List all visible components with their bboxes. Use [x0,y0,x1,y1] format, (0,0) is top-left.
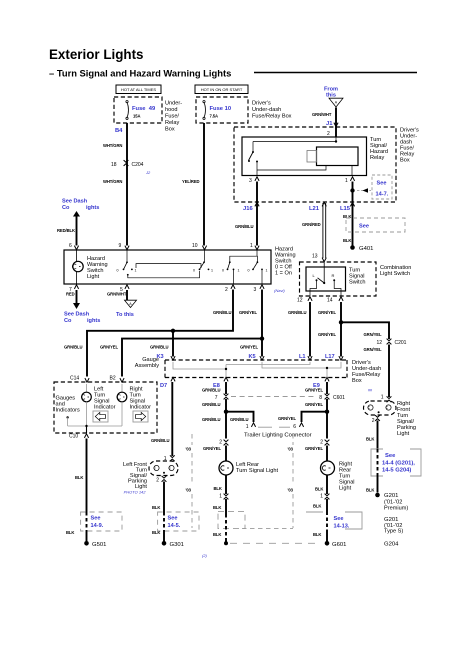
svg-text:Driver's: Driver's [252,101,271,107]
svg-text:15A: 15A [133,114,140,119]
svg-text:BLK: BLK [366,488,374,493]
left arrow icon [93,411,108,422]
hazard pin 5 [120,285,129,293]
svg-text:Light: Light [397,431,410,437]
connector J16 [243,202,259,212]
svg-text:'03: '03 [288,447,294,452]
left rear ground link box [213,499,245,545]
hot at all times header box [116,85,161,94]
wire relay pin3 to J16 to hazard pin 1 (GRN/BLU) [235,182,257,246]
svg-text:14-4 (G201),: 14-4 (G201), [382,461,415,467]
svg-text:BLK: BLK [213,505,221,510]
svg-text:12: 12 [377,340,383,346]
see 14-4/14-5 reference [371,449,421,476]
gauges and indicators box [54,382,157,433]
connector D7 [160,377,175,389]
svg-text:14-5 G204): 14-5 G204) [382,468,411,474]
svg-text:1: 1 [135,268,137,272]
svg-text:9: 9 [119,243,122,249]
svg-text:18: 18 [111,162,117,168]
svg-text:BLK: BLK [313,504,321,509]
connector C601 pin 8 [319,394,345,401]
svg-text:14: 14 [327,298,333,304]
svg-text:1: 1 [246,424,249,430]
svg-text:See Dash: See Dash [64,312,90,318]
(Navi) note [274,288,285,293]
wire pin 12 to L1 (GRN/BLU) [288,302,310,357]
svg-text:G401: G401 [359,246,373,252]
wire link A to relay pin 2 (GRN/WHT) [312,108,336,138]
turn signal/hazard relay [242,131,388,176]
svg-text:Indicators: Indicators [56,408,80,414]
svg-text:1: 1 [345,178,348,184]
svg-text:'03: '03 [186,488,192,493]
connector B2 [110,376,125,383]
svg-text:WHT/GRN: WHT/GRN [103,143,122,148]
svg-text:GRN/YEL: GRN/YEL [364,332,382,337]
relay pin 1 [345,177,355,184]
svg-text:K3: K3 [157,354,164,360]
svg-text:2: 2 [327,131,330,137]
svg-text:14-5.: 14-5. [168,523,181,529]
svg-text:J16: J16 [243,206,253,212]
wire L21 to turn switch pin 13 (GRN/RED hollow) [302,203,326,258]
svg-text:C10: C10 [69,434,78,440]
connector E9 [313,377,329,389]
svg-text:1: 1 [266,268,268,272]
svg-text:G204: G204 [384,542,399,548]
wire branch to trailer pin 1 [226,412,254,422]
right front turn signal/parking light [364,401,416,437]
left rear light pin 1 [213,494,228,511]
svg-text:R: R [332,273,335,278]
svg-text:3: 3 [254,287,257,293]
wire hazard pin 5 to link A (GRN/WHT) [107,290,137,318]
turn signal switch (combination light switch) [300,262,412,296]
svg-text:Light Switch: Light Switch [380,271,410,277]
svg-text:1 = On: 1 = On [275,271,292,277]
hazard warning switch light bulb [72,250,107,284]
footnote ## [368,389,373,393]
svg-text:1: 1 [320,494,323,500]
see 14-13 reference [306,499,362,537]
svg-text:Fuse 49: Fuse 49 [132,106,156,112]
svg-text:8: 8 [319,395,322,401]
see 14-7 reference [357,175,392,199]
svg-text:Box: Box [165,127,175,133]
svg-text:L17: L17 [325,354,335,360]
hazard pin 7 [69,285,79,293]
right rear light pin 2 [305,440,329,452]
connector 7 ('03 trailer) [215,394,315,401]
svg-text:1: 1 [219,494,222,500]
svg-text:Indicator: Indicator [130,405,152,411]
svg-text:C201: C201 [395,340,407,346]
svg-text:BLK: BLK [214,486,222,491]
wire dash lights to hazard pin 6 (RED/BLK) [57,216,77,246]
hazard warning switch [64,250,271,284]
wire left front light to G301 (BLK) [152,482,164,513]
svg-text:(2): (2) [202,553,208,558]
right front light pin 2 [372,415,380,424]
driver's under-dash fuse/relay box (dashed) [234,127,396,202]
svg-text:BLK: BLK [213,532,221,537]
svg-text:2: 2 [320,440,323,446]
left front turn signal/parking light [123,455,178,494]
svg-text:BLK: BLK [75,475,83,480]
svg-text:Box: Box [400,158,410,164]
svg-text:BLK: BLK [66,530,74,535]
svg-text:14-13.: 14-13. [334,524,350,530]
from this (link A) [324,87,343,108]
'03 alternate dashes right [242,434,294,529]
wire fuse49 to hazard pin 9 (WHT/GRN) [103,123,127,246]
svg-text:BLK: BLK [313,532,321,537]
see 14-5 reference [152,512,199,535]
ground G204 [384,542,399,548]
svg-text:14-9.: 14-9. [91,523,104,529]
svg-text:GRN/YEL: GRN/YEL [318,332,336,337]
turn switch pin 12 [297,297,312,304]
ground G201 type s [384,517,403,535]
svg-text:2: 2 [225,287,228,293]
relay pin 3 [249,177,259,184]
left turn signal indicator [81,384,115,411]
svg-text:GRN/YEL: GRN/YEL [203,446,221,451]
svg-text:C204: C204 [132,162,144,168]
svg-text:hood: hood [165,107,177,113]
svg-text:See: See [168,516,178,522]
svg-text:Under-dash: Under-dash [252,107,281,113]
see ground box [346,218,405,232]
svg-text:WHT/GRN: WHT/GRN [103,179,122,184]
svg-text:1: 1 [238,268,240,272]
indicator ground bus [66,402,122,433]
svg-text:12: 12 [297,298,303,304]
svg-text:G501: G501 [92,542,106,548]
left rear light pin 2 [203,440,228,452]
svg-text:See: See [385,453,396,459]
hazard switch contacts [117,250,268,284]
connector K5 [249,354,265,360]
svg-text:GRN/WHT: GRN/WHT [312,112,332,117]
svg-text:13: 13 [312,254,318,260]
see dash lights (top link) [62,199,99,217]
turn switch pin 13 [312,254,326,262]
hazard pin 3 [254,285,265,293]
svg-text:1: 1 [250,243,253,249]
wire E9 to C601 (GRN/YEL) [305,382,327,394]
connector E8 [213,377,228,389]
connector C10 [69,434,89,440]
left rear turn signal light [214,446,279,495]
svg-text:BLK: BLK [152,505,160,510]
svg-text:2: 2 [372,418,375,424]
svg-text:See: See [334,516,344,522]
connector L17 [325,354,343,360]
svg-text:6: 6 [69,243,72,249]
fuse 49 [126,101,156,120]
svg-text:GRN/BLU: GRN/BLU [213,310,231,315]
wire relay pin1 to G401 (BLK) [343,182,355,247]
svg-text:G601: G601 [332,542,346,548]
turn signal switch contacts [306,262,365,296]
wire to left rear junction [202,399,248,439]
svg-text:7.5A: 7.5A [210,114,219,119]
ground G301 [162,531,184,548]
trailer pin 1 [246,423,256,430]
svg-text:'03: '03 [186,447,192,452]
svg-text:GRN/BLU: GRN/BLU [202,388,220,393]
fuse 49 box (underhood fuse/relay box) [114,97,162,123]
hazard switch label [275,247,296,277]
svg-text:6: 6 [293,424,296,430]
connector L15 [340,202,355,212]
hazard pin 2 [225,285,235,293]
svg-text:this: this [326,93,336,99]
right rear light pin 1 [313,494,329,509]
svg-text:Indicator: Indicator [94,405,116,411]
underhood box label [165,101,182,133]
svg-text:GRN/BLU: GRN/BLU [288,310,306,315]
svg-text:GRN/BLU: GRN/BLU [150,345,168,350]
trailer pin 6 [278,416,304,430]
wire C601 to right rear junction [305,399,329,439]
svg-text:7: 7 [215,395,218,401]
svg-text:B4: B4 [115,128,123,134]
hazard pin 9 [119,243,130,250]
gauge assembly label [135,357,159,369]
svg-text:Type S): Type S) [384,529,403,535]
fuse 10 box (driver's under-dash fuse/relay box) [196,97,248,123]
under-dash box label right [400,128,419,164]
svg-text:Trailer Lighting Connector: Trailer Lighting Connector [244,433,312,439]
see 14-9 reference [66,512,122,535]
ground G201 [366,476,408,512]
svg-text:0: 0 [248,268,250,272]
svg-text:GRN/RED: GRN/RED [302,222,321,227]
svg-text:0: 0 [193,268,195,272]
svg-text:2: 2 [219,440,222,446]
svg-text:'03: '03 [288,488,294,493]
svg-text:G201: G201 [384,493,398,499]
svg-text:To this: To this [116,312,134,318]
hazard pin 6 [69,243,79,250]
footnote (2) [202,553,208,558]
gauge assembly / under-dash pass-through box [165,360,347,378]
svg-text:Fuse 10: Fuse 10 [210,106,232,112]
svg-text:See: See [377,181,387,187]
svg-text:K5: K5 [249,354,256,360]
svg-text:Assembly: Assembly [135,363,159,369]
svg-text:GRN/BLU: GRN/BLU [151,438,169,443]
wire C201 to right front light (GRN/YEL) [364,345,390,398]
svg-text:Relay: Relay [165,120,180,126]
svg-text:GRN/BLU: GRN/BLU [64,345,82,350]
connector C201 pin 12 [377,339,407,346]
connector C204 pin 18 [111,160,151,175]
trailer lighting connector [244,427,312,438]
svg-text:1: 1 [211,268,213,272]
svg-text:RED/BLK: RED/BLK [57,228,75,233]
svg-text:BLK: BLK [315,487,323,492]
svg-text:Exterior Lights: Exterior Lights [49,47,144,62]
svg-text:BLK: BLK [366,437,374,442]
svg-text:– Turn Signal and Hazard Warni: – Turn Signal and Hazard Warning Lights [49,68,231,79]
svg-text:Co: Co [62,205,70,211]
svg-text:See: See [359,224,369,230]
hot in on or start header box [195,85,248,94]
svg-text:GRN/YEL: GRN/YEL [305,446,323,451]
wire E8 to left rear light (GRN/BLU) [202,382,226,394]
wire hazard pin 7 to dash lights (RED) [64,290,100,324]
svg-text:L21: L21 [309,206,320,212]
svg-text:GRN/YEL: GRN/YEL [100,345,118,350]
connector L21 [309,202,326,212]
svg-text:GRN/YEL: GRN/YEL [239,310,257,315]
svg-text:0: 0 [222,268,224,272]
svg-text:B2: B2 [110,376,116,382]
svg-text:(Navi): (Navi) [274,288,285,293]
TITLE [49,47,417,79]
wire branch right rear to trailer pin 6 [302,412,328,422]
svg-text:GRN/YEL: GRN/YEL [240,345,258,350]
svg-text:RED: RED [66,292,75,297]
hazard pin 10 [192,243,207,250]
connector K3 [157,354,176,360]
svg-text:Box: Box [352,378,362,384]
svg-text:GRN/BLU: GRN/BLU [235,224,253,229]
svg-text:PHOTO 142: PHOTO 142 [124,490,147,495]
wire hazard pin 3 to B2/K5 (GRN/YEL) [100,290,264,377]
svg-text:Co: Co [64,318,72,324]
svg-text:GRN/YEL: GRN/YEL [318,310,336,315]
'03 alternate dashes left [186,434,193,528]
svg-text:Fuse/: Fuse/ [165,114,179,120]
svg-text:3: 3 [249,178,252,184]
svg-text:GRN/YEL: GRN/YEL [305,402,323,407]
svg-text:GRN/BLU: GRN/BLU [202,402,220,407]
svg-text:BLK: BLK [152,530,160,535]
under-dash label 2 [352,360,381,384]
connector J1 [334,123,338,127]
svg-text:Under-: Under- [165,101,182,107]
svg-text:Fuse/Relay Box: Fuse/Relay Box [252,114,292,120]
svg-text:GRN/WHT: GRN/WHT [107,292,127,297]
svg-text:GRN/BLU: GRN/BLU [230,417,248,422]
svg-text:0: 0 [117,268,119,272]
svg-text:GRN/YEL: GRN/YEL [305,388,323,393]
svg-text:C14: C14 [70,376,79,382]
wire D7 to left front light (GRN/BLU) [151,382,172,456]
svg-text:ights: ights [87,318,100,324]
svg-text:Light: Light [87,274,100,280]
right rear turn signal light [315,446,355,495]
svg-text:2: 2 [156,478,159,484]
wire pin 14 to L17 and C201 (GRN/YEL) [318,302,389,357]
svg-text:Premium): Premium) [384,506,408,512]
wire C10 to G501 (BLK) [75,439,87,513]
'03 ground link to G601 [230,542,321,544]
svg-text:YEL/RED: YEL/RED [182,179,200,184]
svg-text:See Dash: See Dash [62,199,88,205]
right front light pin 1 [381,395,392,403]
svg-text:ights: ights [86,205,99,211]
svg-text:BLK: BLK [343,238,351,243]
svg-text:HOT AT ALL TIMES: HOT AT ALL TIMES [121,87,156,92]
under-dash box label [252,101,292,120]
turn switch pin 14 [327,297,343,304]
node B4 [115,128,123,134]
wire hazard pin 2 to C14/K3 (GRN/BLU) [64,290,233,377]
wire fuse10 to hazard pin 10 (YEL/RED) [182,123,204,246]
svg-text:L15: L15 [340,206,351,212]
connector C14 [70,376,89,383]
fuse 10 [203,101,231,120]
right arrow icon [133,411,148,422]
connector L1 [299,354,312,360]
ground G601 [325,530,347,548]
ground G401 [350,245,373,252]
ground G501 [84,531,106,548]
svg-text:Switch: Switch [349,280,365,286]
svg-text:L1: L1 [299,354,306,360]
svg-text:Light: Light [339,486,352,492]
svg-text:C601: C601 [333,395,345,401]
svg-text:G301: G301 [170,542,184,548]
svg-text:GRN/BLU: GRN/BLU [202,417,220,422]
svg-text:1: 1 [381,395,384,401]
svg-text:Relay: Relay [370,155,385,161]
svg-text:See: See [91,516,101,522]
svg-text:J1: J1 [326,121,333,127]
wire right front light to G201 (BLK) [366,421,378,450]
svg-text:HOT IN ON OR START: HOT IN ON OR START [201,87,243,92]
internal links K3/L1 to E8, K5/L17 to E9 [173,362,341,377]
svg-text:Turn Signal Light: Turn Signal Light [236,468,279,474]
svg-text:J2: J2 [145,170,151,175]
svg-text:14-7.: 14-7. [376,192,389,198]
svg-text:GRN/YEL: GRN/YEL [278,416,296,421]
hazard pin 1 [250,243,259,250]
svg-text:10: 10 [192,243,198,249]
svg-text:GRN/YEL: GRN/YEL [364,347,382,352]
right turn signal indicator [117,384,151,411]
svg-text:D7: D7 [160,383,167,389]
